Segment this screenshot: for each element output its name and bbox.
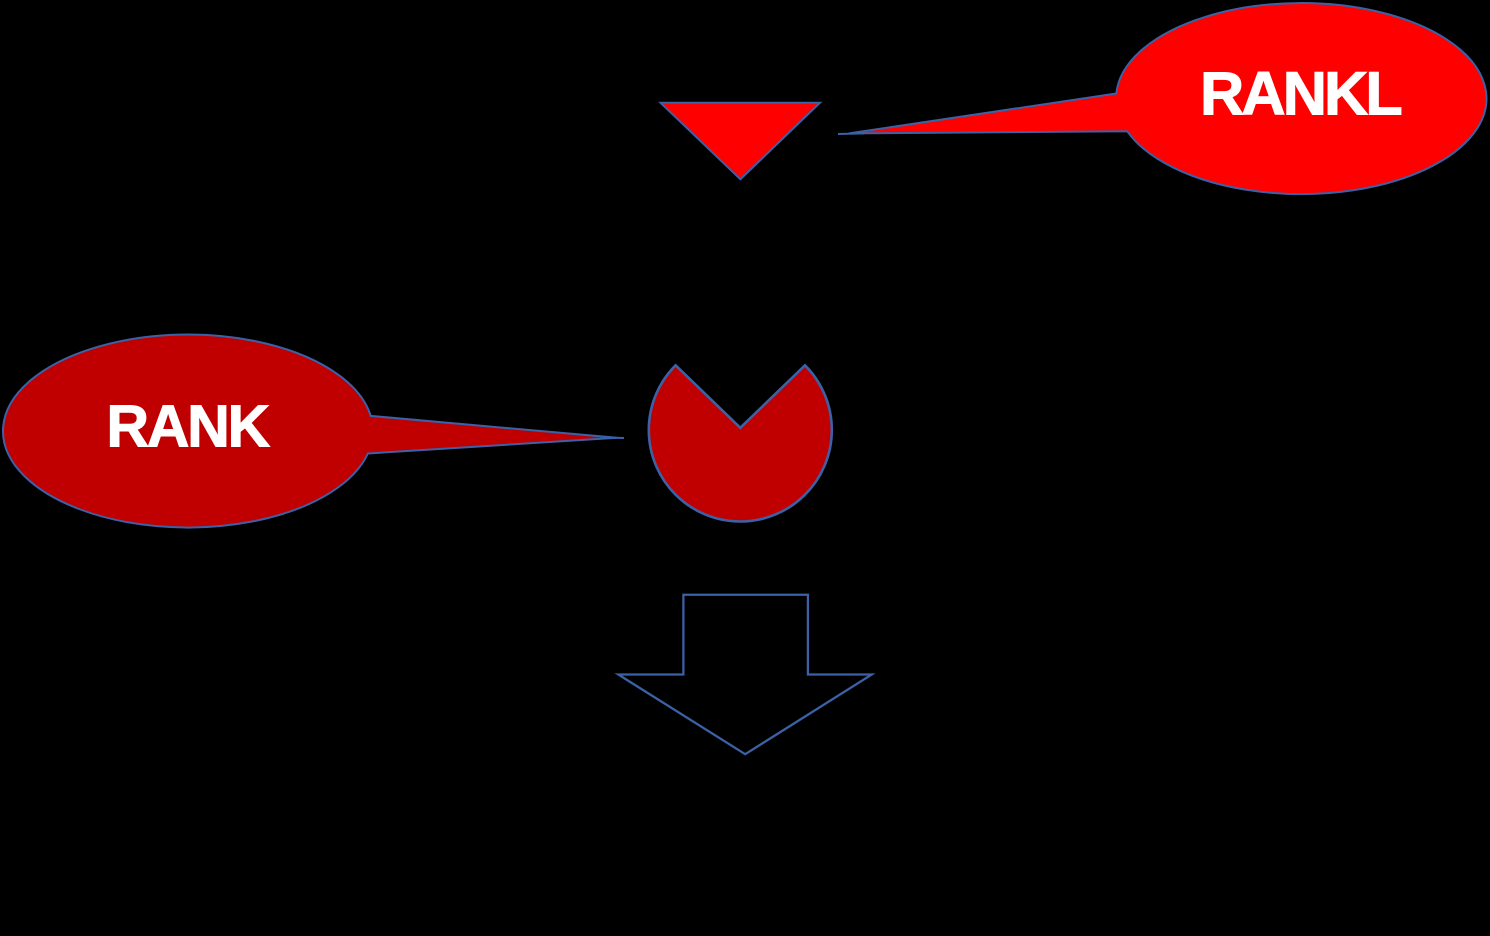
RANKL callout bubble: [849, 3, 1486, 194]
svg-text:RANKL: RANKL: [1200, 60, 1401, 128]
RANK callout tail tip line: [612, 437, 624, 439]
RANK callout bubble: [3, 335, 617, 528]
RANKL ligand triangle: [661, 103, 821, 180]
outcome block arrow: [618, 595, 872, 754]
RANKL callout tail tip line: [838, 132, 864, 135]
RANK receptor pac-man: [649, 365, 832, 521]
svg-text:RANK: RANK: [106, 394, 269, 459]
